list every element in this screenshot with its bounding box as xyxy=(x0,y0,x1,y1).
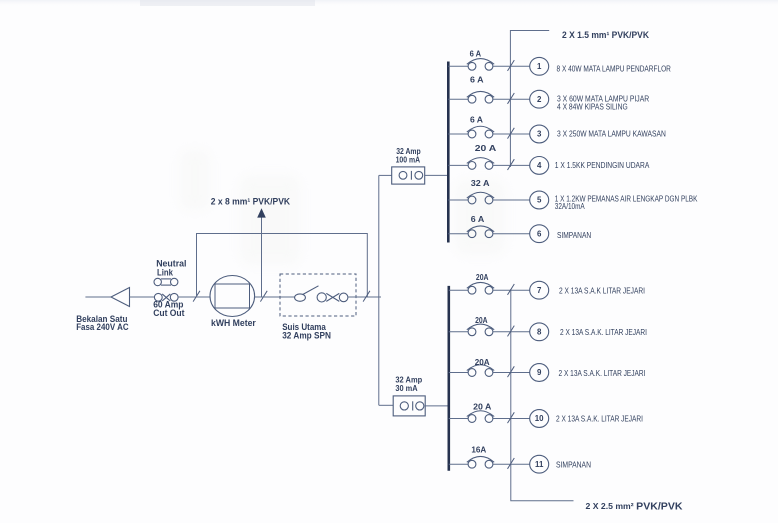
wire RCD1 to busbar 1 xyxy=(425,174,449,176)
node tick circuit 1 cable crossing xyxy=(508,60,515,71)
node circuit number 7 xyxy=(530,281,549,299)
wire RCD2 to busbar 2 xyxy=(425,405,449,407)
node circuit number 1 xyxy=(530,57,549,75)
svg-text:Cut Out: Cut Out xyxy=(153,308,184,318)
fuse F1 inside main switch xyxy=(317,293,348,302)
MCB 20A circuit 10 xyxy=(468,415,476,423)
wire circuit 5 MCB to outgoing node xyxy=(493,199,530,201)
wire riser to RCD2 xyxy=(379,404,393,406)
svg-text:20A: 20A xyxy=(475,357,490,367)
svg-text:3 X 250W MATA LAMPU KAWASAN: 3 X 250W MATA LAMPU KAWASAN xyxy=(557,128,666,138)
wire circuit 2 MCB to outgoing node xyxy=(493,98,530,100)
svg-text:SIMPANAN: SIMPANAN xyxy=(556,461,591,470)
MCB 32A circuit 5 xyxy=(468,196,476,204)
svg-text:2 X 2.5 mm²: 2 X 2.5 mm² xyxy=(586,501,634,511)
wire circuit 4 MCB to outgoing node xyxy=(493,164,530,166)
wire circuit 8 MCB to outgoing node xyxy=(493,331,530,333)
MCB 6A circuit 6 xyxy=(468,230,476,238)
svg-text:6 A: 6 A xyxy=(470,75,484,85)
svg-text:8: 8 xyxy=(537,328,542,337)
wire circuit 4 busbar to MCB xyxy=(448,164,468,166)
node tick circuit 4 cable crossing xyxy=(508,159,515,170)
node tick at riser base xyxy=(260,291,267,302)
MCB 6A circuit 1 xyxy=(468,62,476,70)
wire riser to RCD1 xyxy=(379,174,392,176)
wire circuit 2 busbar to MCB xyxy=(448,98,468,100)
RCD U2 32 Amp 30 mA xyxy=(393,396,425,416)
node circuit number 6 xyxy=(530,225,549,243)
busbar 1 (lighting DB) xyxy=(447,62,450,243)
wire circuit 7 busbar to MCB xyxy=(449,289,468,291)
node tick circuit 3 cable crossing xyxy=(508,128,515,139)
svg-text:2 X 13A S.A.K LITAR JEJARI: 2 X 13A S.A.K LITAR JEJARI xyxy=(559,286,645,295)
RCD U1 32 Amp 100 mA xyxy=(392,167,425,184)
svg-text:2 X 13A S.A.K. LITAR JEJARI: 2 X 13A S.A.K. LITAR JEJARI xyxy=(560,328,647,337)
wire circuit 7 MCB to outgoing node xyxy=(493,289,530,291)
wire circuit 9 busbar to MCB xyxy=(449,372,468,374)
label 60 Amp Cut Out xyxy=(153,300,184,319)
svg-text:20 A: 20 A xyxy=(475,143,497,153)
svg-text:2: 2 xyxy=(537,95,542,104)
node tick at loop right leg xyxy=(363,291,370,302)
node circuit number 3 xyxy=(530,125,549,143)
wire cut-out to kWH meter xyxy=(178,296,210,298)
svg-text:6 A: 6 A xyxy=(470,115,483,125)
label Bekalan Satu Fasa 240V AC xyxy=(76,314,129,332)
node circuit number 9 xyxy=(530,364,549,382)
svg-text:20 A: 20 A xyxy=(473,402,491,412)
MCB 16A circuit 11 xyxy=(468,460,476,468)
svg-text:30 mA: 30 mA xyxy=(395,383,417,393)
svg-text:11: 11 xyxy=(535,460,544,469)
label 32 Amp 30 mA xyxy=(395,375,422,394)
svg-text:2 X 1.5 mm¹ PVK/PVK: 2 X 1.5 mm¹ PVK/PVK xyxy=(562,30,649,40)
wire circuit 6 busbar to MCB xyxy=(448,233,468,235)
busbar 2 (power DB) xyxy=(447,286,450,471)
label Suis Utama 32 Amp SPN xyxy=(282,322,331,341)
wire supply lead-in xyxy=(85,296,111,298)
svg-text:32A/10mA: 32A/10mA xyxy=(555,201,585,211)
svg-text:32 A: 32 A xyxy=(471,178,490,188)
svg-text:kWH Meter: kWH Meter xyxy=(211,318,256,328)
wire circuit 5 busbar to MCB xyxy=(448,199,468,201)
node tick circuit 8 cable crossing xyxy=(508,326,515,337)
svg-text:PVK/PVK: PVK/PVK xyxy=(636,501,683,512)
wire circuit 1 MCB to outgoing node xyxy=(493,65,530,67)
node circuit number 4 xyxy=(530,157,549,175)
svg-text:2 X 13A S.A.K. LITAR JEJARI: 2 X 13A S.A.K. LITAR JEJARI xyxy=(559,369,646,378)
svg-text:4 X 84W KIPAS SILING: 4 X 84W KIPAS SILING xyxy=(557,101,628,111)
node circuit number 5 xyxy=(530,191,549,209)
svg-text:Link: Link xyxy=(157,268,173,278)
svg-text:5: 5 xyxy=(537,196,542,205)
supply source symbol (incoming supply arrow) xyxy=(111,288,130,307)
node tick circuit 9 cable crossing xyxy=(508,366,515,377)
wire circuit 8 busbar to MCB xyxy=(449,331,468,333)
wire main switch to feeder node xyxy=(348,296,381,298)
svg-text:SIMPANAN: SIMPANAN xyxy=(557,230,591,240)
svg-text:20A: 20A xyxy=(475,315,488,325)
kWH Meter M1 xyxy=(210,276,255,317)
wire circuit 6 MCB to outgoing node xyxy=(493,233,530,235)
wire circuit 3 MCB to outgoing node xyxy=(493,133,530,135)
wire meter tails riser (2 x 8 mm PVK/PVK) with arrow xyxy=(261,217,263,298)
svg-text:1: 1 xyxy=(537,62,542,71)
svg-text:2 x 8 mm¹ PVK/PVK: 2 x 8 mm¹ PVK/PVK xyxy=(211,197,291,207)
node tick circuit 11 cable crossing xyxy=(508,458,515,469)
node circuit number 10 xyxy=(530,410,549,428)
svg-text:100 mA: 100 mA xyxy=(396,155,421,165)
wire circuit 10 MCB to outgoing node xyxy=(493,418,530,420)
wire feeder riser to both RCDs xyxy=(378,175,380,405)
svg-text:9: 9 xyxy=(537,368,542,377)
MCB 20A circuit 7 xyxy=(468,286,476,294)
label Neutral Link xyxy=(156,259,186,278)
wire circuit 3 busbar to MCB xyxy=(448,133,468,135)
svg-text:3: 3 xyxy=(537,130,542,139)
node tick circuit 7 cable crossing xyxy=(508,284,515,295)
wire supply to cut-out xyxy=(130,296,155,298)
node circuit number 11 xyxy=(530,455,549,473)
svg-text:6: 6 xyxy=(537,229,542,238)
neutral link symbol xyxy=(154,278,178,285)
main switch enclosure (dashed) Suis Utama xyxy=(280,274,356,316)
node circuit number 2 xyxy=(530,90,549,108)
svg-text:4: 4 xyxy=(537,161,542,170)
svg-text:16A: 16A xyxy=(471,445,486,455)
svg-text:6 A: 6 A xyxy=(470,49,482,59)
MCB 20A circuit 9 xyxy=(468,369,476,377)
wire circuit 10 busbar to MCB xyxy=(449,418,468,420)
svg-text:8 X 40W MATA LAMPU PENDARFLOR: 8 X 40W MATA LAMPU PENDARFLOR xyxy=(557,64,671,74)
wire meter bypass loop xyxy=(197,234,368,298)
svg-text:7: 7 xyxy=(537,286,542,295)
wire circuit 11 busbar to MCB xyxy=(449,463,468,465)
MCB 6A circuit 2 xyxy=(468,95,476,103)
svg-text:10: 10 xyxy=(535,414,544,423)
MCB 6A circuit 3 xyxy=(468,130,476,138)
switch S1 (Suis Utama contact) xyxy=(295,286,319,302)
wire meter to main switch xyxy=(255,296,295,298)
fuse 60 Amp Cut Out xyxy=(154,293,178,301)
svg-text:6 A: 6 A xyxy=(471,214,484,224)
wire cable tag 2 X 2.5 mm PVK/PVK (crosses circuits 7-11) xyxy=(511,289,574,501)
svg-text:1 X 1.5KK PENDINGIN UDARA: 1 X 1.5KK PENDINGIN UDARA xyxy=(555,160,650,170)
node tick circuit 10 cable crossing xyxy=(508,412,515,423)
svg-text:20A: 20A xyxy=(476,272,489,282)
svg-text:Fasa 240V AC: Fasa 240V AC xyxy=(76,322,129,332)
wire circuit 1 busbar to MCB xyxy=(448,65,468,67)
wire circuit 9 MCB to outgoing node xyxy=(493,372,530,374)
MCB 20A circuit 8 xyxy=(468,328,476,336)
MCB 20A circuit 4 xyxy=(468,162,476,170)
node junction tick at meter tail loop xyxy=(193,291,200,302)
label 32 Amp 100 mA xyxy=(396,146,421,165)
svg-text:32 Amp SPN: 32 Amp SPN xyxy=(282,331,331,341)
wire circuit 11 MCB to outgoing node xyxy=(493,463,530,465)
node tick circuit 2 cable crossing xyxy=(508,93,515,104)
node circuit number 8 xyxy=(530,323,549,341)
wire cable tag 2 X 1.5 mm PVK/PVK (crosses circuits 1-4) xyxy=(510,31,549,168)
svg-text:2 X 13A S.A.K. LITAR JEJARI: 2 X 13A S.A.K. LITAR JEJARI xyxy=(556,415,643,424)
